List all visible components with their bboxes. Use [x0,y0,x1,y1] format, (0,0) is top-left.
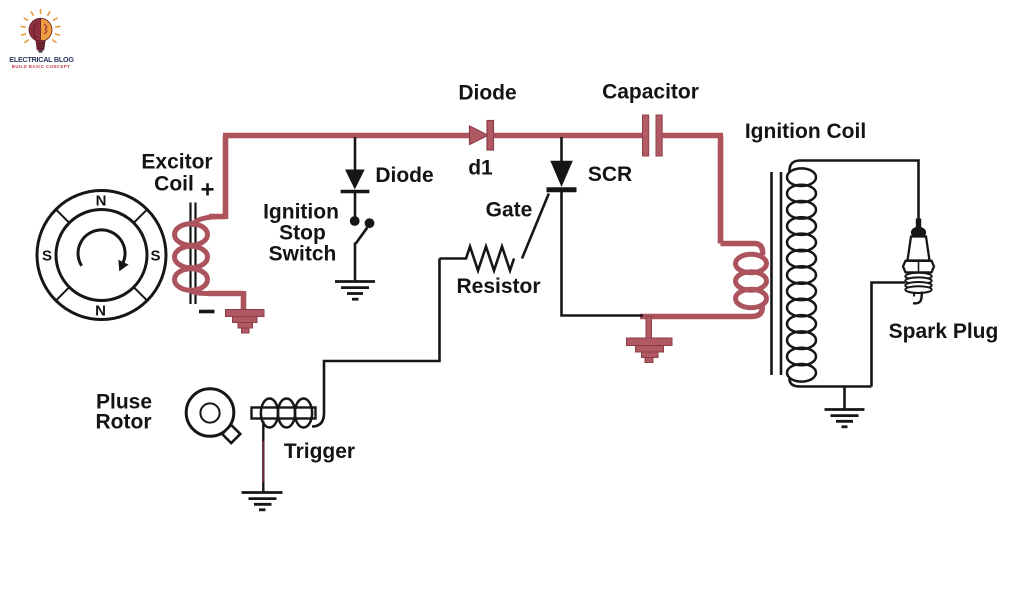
trigger coil winding [261,399,312,428]
wire excitor bottom to ground [208,291,244,311]
wire top bus left segment [223,133,471,139]
resistor R1 [440,247,515,271]
svg-text:Switch: Switch [269,243,337,266]
wire resistor to trigger coil [312,259,440,427]
svg-text:N: N [95,303,106,320]
svg-text:N: N [96,193,107,210]
switch lever [356,228,368,244]
svg-text:Stop: Stop [279,222,326,245]
pulse rotor [186,389,234,437]
svg-text:SCR: SCR [588,163,632,186]
capacitor [643,115,649,156]
wire bus to stop-switch diode [354,137,357,171]
trigger coil core bar [252,408,316,419]
wire SCR gate lead [522,194,549,259]
wire secondary top to spark plug [789,161,918,225]
pulse rotor inner circle [200,403,219,422]
svg-text:+: + [200,177,214,204]
svg-text:S: S [42,248,52,265]
logo Electrical Blog [9,10,74,69]
diode (ignition stop switch branch) [345,170,365,190]
svg-text:Diode: Diode [458,82,516,105]
ignition coil primary winding (red) [736,254,767,307]
svg-text:Spark Plug: Spark Plug [889,320,999,343]
SCR thyristor [550,161,573,187]
svg-text:Rotor: Rotor [96,411,152,434]
switch contact A [350,216,360,226]
minus terminal mark [199,310,215,314]
rotation arrow [78,230,125,266]
svg-text:ELECTRICAL BLOG: ELECTRICAL BLOG [9,55,74,64]
ground excitor (red) [226,310,265,334]
svg-text:Resistor: Resistor [456,275,540,298]
ground ignition coil secondary [825,410,865,427]
wire bus to SCR [560,137,563,162]
svg-text:Ignition: Ignition [263,201,339,224]
switch contact B [365,218,375,228]
svg-text:Diode: Diode [375,164,433,187]
wire switch to ground [354,243,357,282]
wire spark plug side return [872,283,906,387]
spark plug [903,219,934,304]
svg-text:Excitor: Excitor [141,151,212,174]
pulse rotor key tab [222,425,240,443]
diode d1 [470,126,489,145]
svg-text:S: S [150,248,160,265]
flywheel magnet rotor [37,191,166,320]
excitor coil winding [175,217,226,294]
wire primary bottom return [640,306,762,317]
wire excitor top to bus [209,136,226,220]
svg-text:Capacitor: Capacitor [602,81,699,104]
ground SCR-capacitor junction (red) [627,317,673,363]
svg-text:Ignition Coil: Ignition Coil [745,120,866,143]
svg-text:Coil: Coil [154,173,194,196]
ignition coil core [770,172,773,375]
svg-text:d1: d1 [468,157,493,180]
ignition coil secondary winding [787,168,816,381]
wire diode to switch contact [354,193,357,217]
ground ignition stop switch [335,282,375,300]
wire SCR cathode down and to ground junction [562,192,644,316]
wire bus diode to capacitor [494,133,643,139]
wire ground tap [843,387,846,410]
excitor coil core [189,203,191,305]
svg-text:Gate: Gate [486,199,533,222]
svg-text:BUILD BASIC CONCEPT: BUILD BASIC CONCEPT [12,64,70,69]
wire capacitor to ignition coil primary [662,136,763,256]
ground trigger [242,493,283,510]
wire secondary bottom [789,378,871,387]
wire trigger to ground [262,421,264,492]
svg-text:Trigger: Trigger [284,440,355,463]
